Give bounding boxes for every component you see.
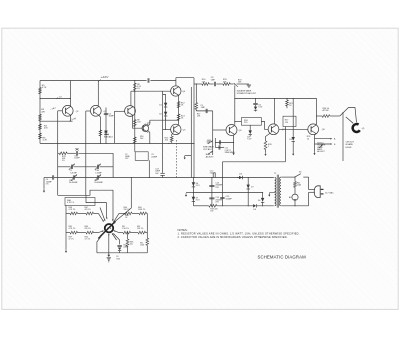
svg-text:470 1%: 470 1%: [85, 209, 91, 211]
svg-text:150K 1%: 150K 1%: [138, 209, 146, 211]
svg-text:20-450MF: 20-450MF: [94, 182, 103, 184]
svg-text:100PF: 100PF: [74, 158, 80, 160]
svg-text:47 1%: 47 1%: [69, 238, 74, 240]
svg-text:4.7K 1%: 4.7K 1%: [69, 209, 76, 211]
svg-text:5%: 5%: [46, 183, 49, 185]
svg-text:20-450MF: 20-450MF: [69, 182, 78, 184]
svg-text:1.5K 1%: 1.5K 1%: [122, 228, 129, 230]
svg-text:15K 1%: 15K 1%: [124, 209, 131, 211]
svg-text:BIAS ADJ: BIAS ADJ: [104, 135, 113, 138]
svg-text:5%: 5%: [137, 88, 140, 90]
svg-text:(4): (4): [362, 128, 365, 130]
svg-text:4.7K 1%: 4.7K 1%: [69, 228, 76, 230]
svg-text:ADJUST: ADJUST: [206, 155, 215, 158]
svg-text:.1MF: .1MF: [200, 107, 205, 109]
svg-text:TB4: TB4: [116, 259, 119, 261]
svg-text:9.1V: 9.1V: [247, 139, 252, 141]
svg-text:500MF: 500MF: [210, 173, 217, 175]
svg-text:SYMMETRY ADJUST: SYMMETRY ADJUST: [237, 92, 257, 95]
svg-text:200MF: 200MF: [151, 156, 158, 158]
svg-text:1. RESISTOR VALUES ARE IN OHMS: 1. RESISTOR VALUES ARE IN OHMS, 1/2 WATT…: [178, 232, 300, 236]
svg-text:EDGE: EDGE: [346, 147, 353, 149]
svg-text:AT 5W: AT 5W: [323, 109, 329, 112]
svg-text:7-45MF: 7-45MF: [95, 172, 102, 174]
svg-text:5%: 5%: [62, 160, 65, 162]
svg-text:100: 100: [140, 138, 143, 140]
svg-text:7-45 MF: 7-45 MF: [70, 172, 78, 174]
svg-text:220: 220: [285, 122, 288, 124]
svg-text:BOARD: BOARD: [346, 143, 354, 146]
svg-text:15K 1%: 15K 1%: [137, 228, 144, 230]
svg-text:CLIP ADJ: CLIP ADJ: [203, 148, 212, 151]
svg-text:.04MF: .04MF: [123, 247, 129, 249]
svg-text:500MF: 500MF: [226, 198, 233, 200]
svg-text:4.7K: 4.7K: [42, 87, 47, 89]
svg-text:SCHEMATIC DIAGRAM: SCHEMATIC DIAGRAM: [258, 255, 307, 260]
svg-text:4.7K: 4.7K: [43, 140, 48, 142]
svg-text:+22V: +22V: [101, 75, 110, 79]
svg-text:4.7 1%: 4.7 1%: [85, 238, 91, 240]
svg-text:150: 150: [130, 244, 133, 246]
svg-text:2. CAPACITOR VALUES ARE IN MIC: 2. CAPACITOR VALUES ARE IN MICROFARADS U…: [178, 235, 288, 239]
svg-text:NOTES:: NOTES:: [178, 228, 188, 232]
svg-text:470 1%: 470 1%: [85, 228, 91, 230]
svg-text:4.7K 1%: 4.7K 1%: [67, 202, 74, 204]
svg-text:1W: 1W: [210, 211, 213, 213]
svg-text:SINE WAVE: SINE WAVE: [225, 151, 236, 154]
svg-text:47K: 47K: [41, 111, 45, 113]
svg-text:40MF: 40MF: [109, 116, 115, 118]
svg-text:117 VAC: 117 VAC: [325, 191, 334, 194]
svg-text:ADJUST: ADJUST: [317, 150, 325, 153]
